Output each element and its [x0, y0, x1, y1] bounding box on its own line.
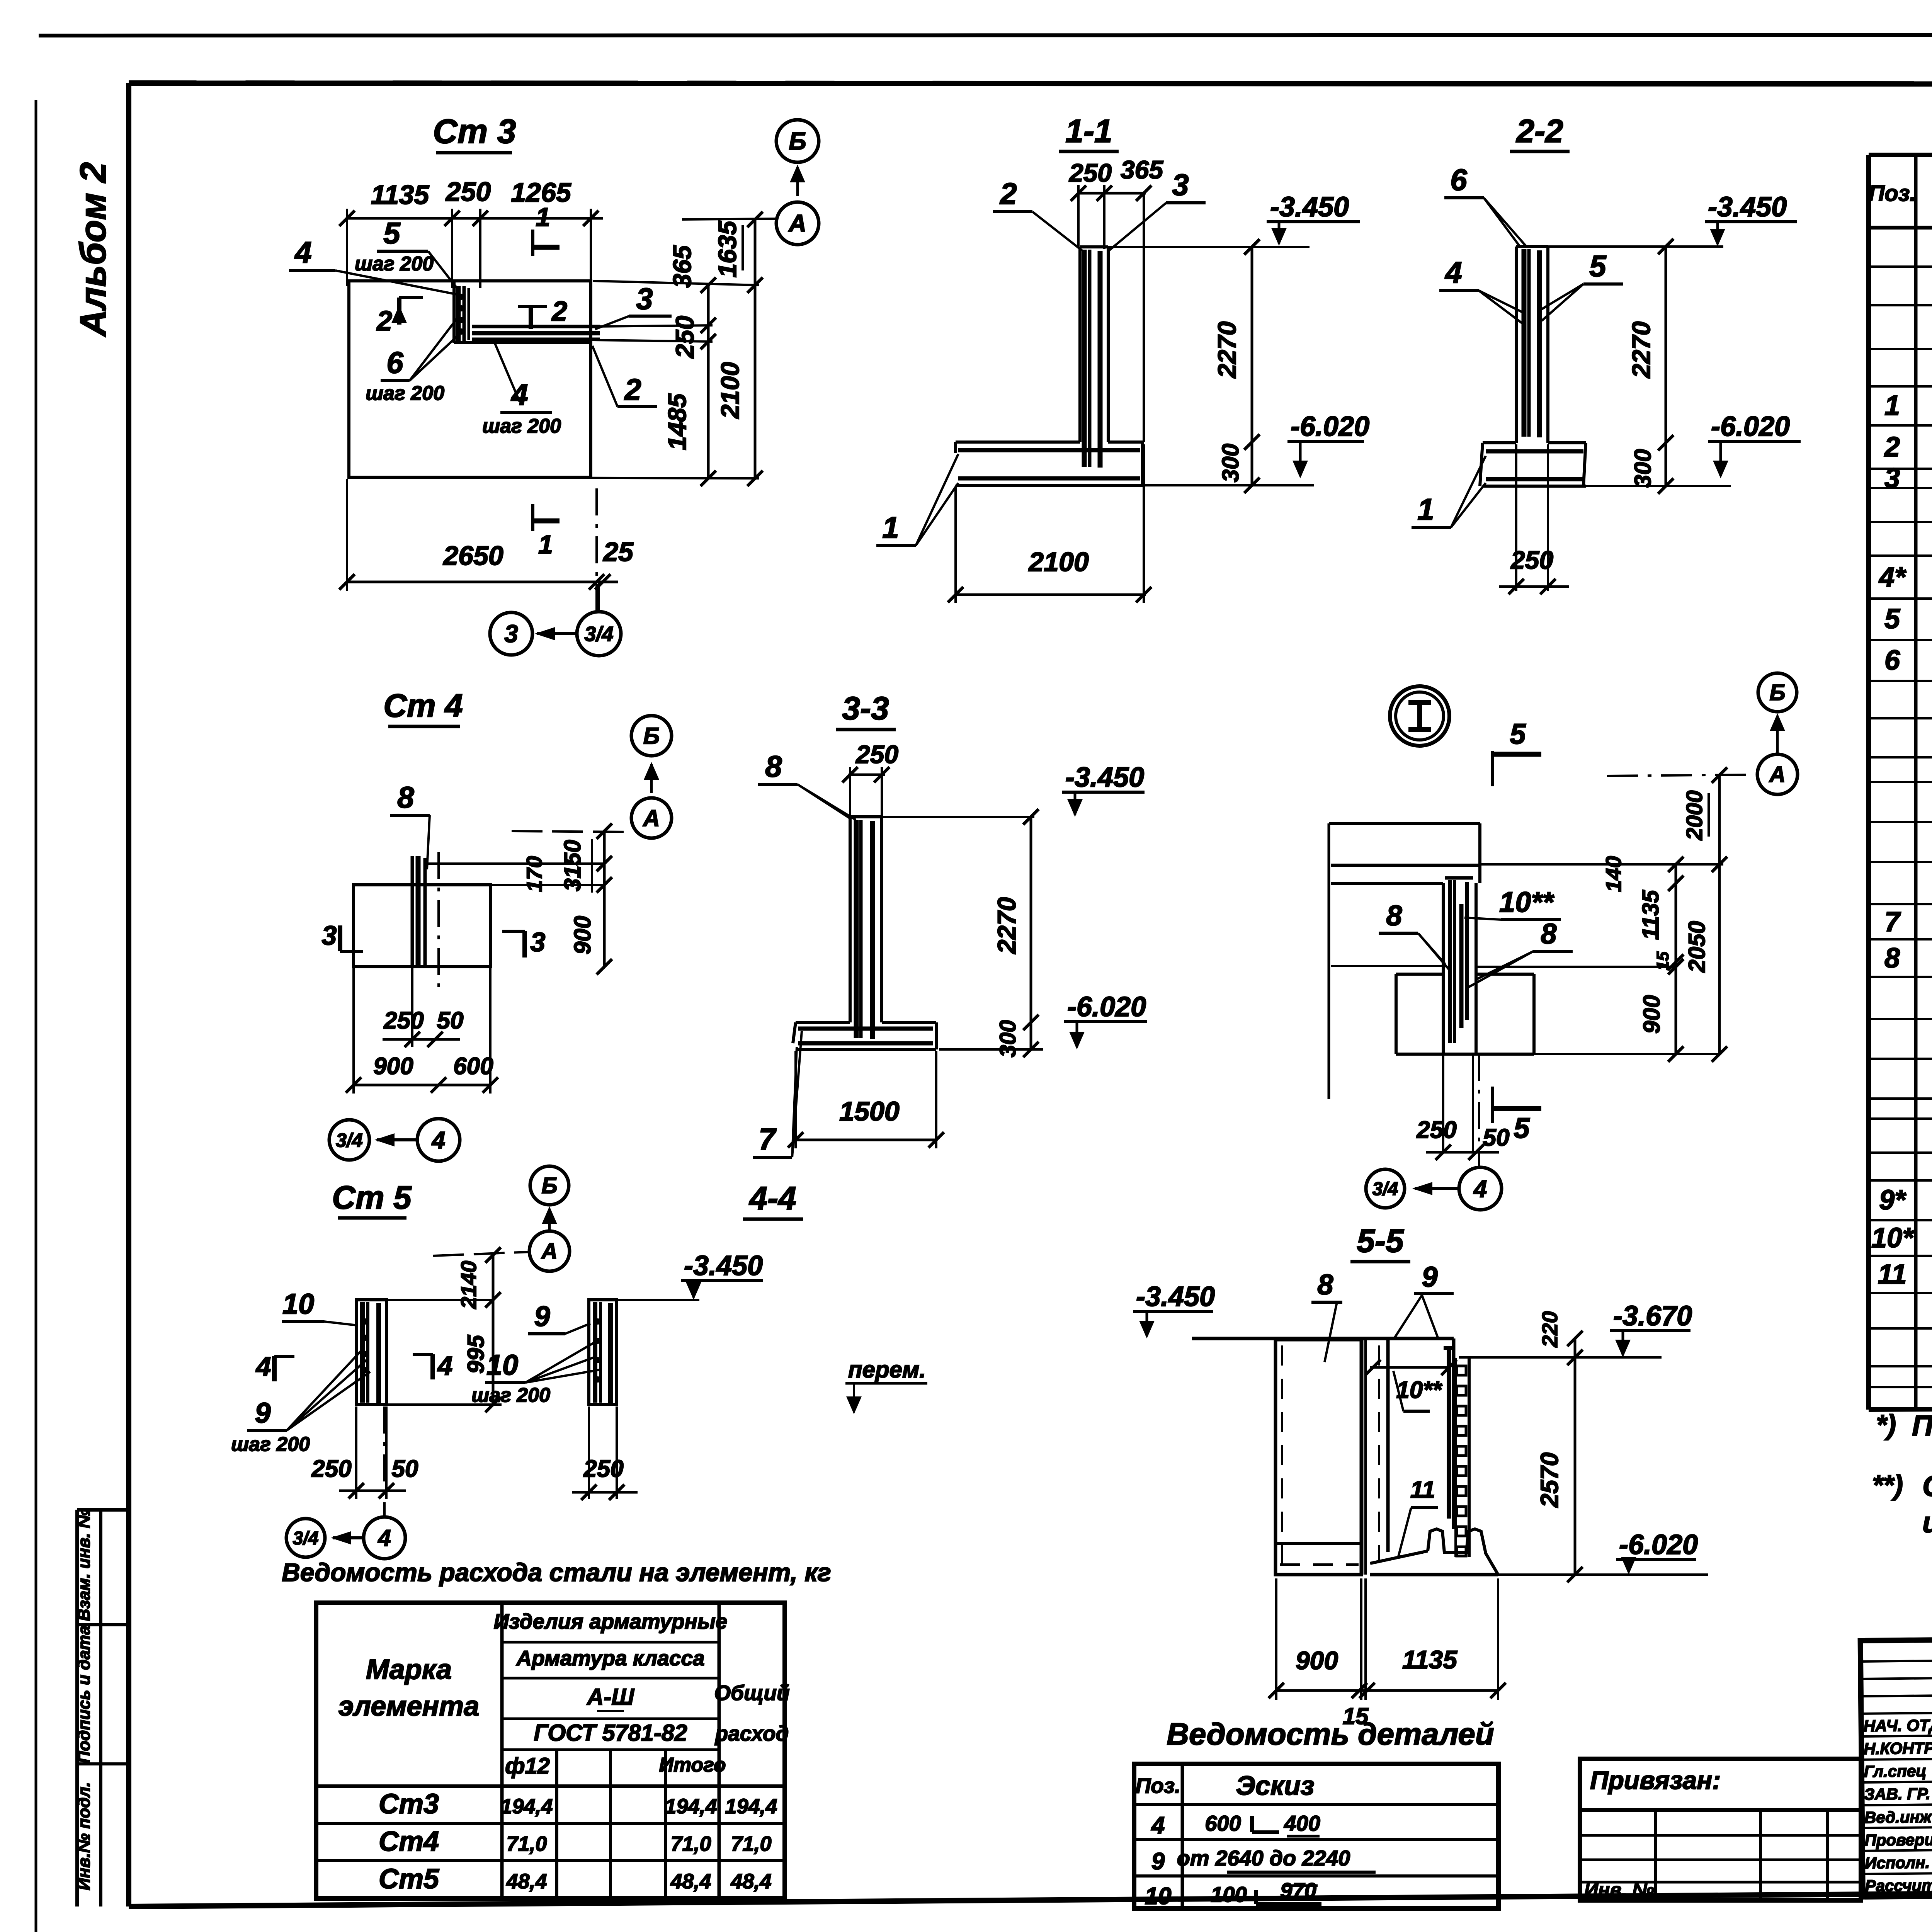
svg-text:3-3: 3-3 — [842, 690, 889, 726]
svg-text:Б: Б — [541, 1173, 557, 1198]
svg-text:Стержень поз. 10 приварить: Стержень поз. 10 приварить к закладному — [1922, 1470, 1932, 1503]
st5 centre line down — [383, 1406, 386, 1517]
svg-text:71,0: 71,0 — [670, 1832, 711, 1855]
5-5 hidden dashed edge — [1378, 1345, 1380, 1561]
svg-text:48,4: 48,4 — [670, 1870, 711, 1893]
svg-text:Позиции 4, 9, 10 см. ведомость: Позиции 4, 9, 10 см. ведомость деталей. — [1912, 1410, 1932, 1442]
svg-text:7: 7 — [759, 1122, 777, 1156]
svg-text:6: 6 — [1450, 163, 1467, 197]
4-4 mesh lines — [593, 1302, 597, 1403]
2-2 footing rebars — [1486, 449, 1583, 454]
svg-text:-3.670: -3.670 — [1613, 1301, 1692, 1332]
st3 marker circle B — [776, 120, 819, 162]
svg-text:970: 970 — [1280, 1878, 1316, 1903]
svg-text:250: 250 — [1510, 546, 1553, 574]
svg-text:71,0: 71,0 — [731, 1832, 771, 1855]
4-4 wall plan — [589, 1300, 617, 1405]
5-5 wall left face — [1386, 1338, 1390, 1552]
svg-text:250: 250 — [311, 1456, 351, 1482]
svg-text:995: 995 — [463, 1334, 489, 1374]
st5 dim 2140/995 — [492, 1255, 495, 1405]
svg-text:Ст 4: Ст 4 — [383, 687, 463, 724]
svg-text:4: 4 — [1444, 255, 1462, 289]
svg-text:Эскиз: Эскиз — [1236, 1770, 1314, 1801]
svg-text:400: 400 — [1284, 1811, 1320, 1835]
1-1 top dims — [1078, 192, 1146, 195]
1-1 footing rebars — [958, 448, 1140, 452]
svg-text:Б: Б — [643, 723, 660, 749]
svg-text:3/4: 3/4 — [1372, 1179, 1398, 1199]
svg-text:194,4: 194,4 — [500, 1795, 553, 1818]
5-5 bottom dims — [1275, 1578, 1277, 1700]
svg-text:Привязан:: Привязан: — [1590, 1766, 1721, 1794]
svg-text:ЗАВ. ГР.: ЗАВ. ГР. — [1864, 1784, 1930, 1803]
svg-text:900: 900 — [570, 916, 595, 954]
5-5 footing shoe — [1428, 1529, 1498, 1575]
svg-text:48,4: 48,4 — [506, 1870, 547, 1893]
5-5 welded mesh strip — [1454, 1358, 1457, 1557]
2-2 bottom dim 250 — [1515, 444, 1517, 591]
svg-text:3: 3 — [531, 927, 546, 957]
svg-text:Взам. инв. №: Взам. инв. № — [75, 1509, 94, 1621]
svg-text:8: 8 — [397, 780, 414, 814]
svg-text:250: 250 — [583, 1456, 623, 1482]
svg-text:2: 2 — [624, 372, 641, 406]
svg-text:4-4: 4-4 — [748, 1180, 796, 1216]
detail I slab — [1329, 822, 1480, 825]
st3 section mark 1 top — [531, 230, 534, 256]
5-5 bar 10 vertical — [1447, 1346, 1451, 1519]
st3 section mark 1 bottom — [531, 504, 534, 531]
svg-text:365: 365 — [668, 245, 696, 288]
svg-text:3/4: 3/4 — [584, 622, 613, 646]
st5 level line A — [433, 1252, 529, 1256]
st4 level line A — [512, 831, 631, 832]
svg-text:2650: 2650 — [442, 541, 503, 571]
st5 section mark 4 left — [272, 1356, 277, 1381]
svg-text:365: 365 — [1121, 155, 1163, 184]
st3 marker circle 3/4 — [577, 612, 621, 656]
svg-text:-3.450: -3.450 — [1065, 762, 1144, 793]
svg-text:Ведомость расхода стали на: Ведомость расхода стали на элемент, кг — [282, 1558, 831, 1587]
st4 dims below — [383, 1038, 460, 1041]
svg-text:2270: 2270 — [1627, 321, 1655, 379]
svg-text:-6.020: -6.020 — [1291, 411, 1369, 442]
sheet left thin border — [35, 100, 37, 1932]
svg-text:Н.КОНТР.: Н.КОНТР. — [1864, 1739, 1932, 1758]
detail I bottom dim 250 50 — [1426, 1151, 1499, 1154]
st5 mesh lines — [360, 1302, 365, 1403]
5-5 wedge line — [1370, 1551, 1428, 1563]
svg-text:10*: 10* — [1871, 1223, 1914, 1253]
st4 section mark 3 right — [522, 931, 527, 957]
st3 level line to marker A — [682, 219, 776, 219]
svg-text:50: 50 — [392, 1456, 418, 1482]
svg-text:шаг 200: шаг 200 — [231, 1433, 310, 1456]
svg-text:3: 3 — [1172, 168, 1189, 202]
svg-text:А: А — [642, 805, 660, 831]
detail I marker circle 4 — [1459, 1167, 1502, 1210]
svg-text:2050: 2050 — [1684, 921, 1710, 973]
svg-text:элемента: элемента — [338, 1691, 479, 1722]
svg-text:9: 9 — [1151, 1848, 1165, 1875]
svg-text:220: 220 — [1537, 1311, 1562, 1347]
svg-text:-6.020: -6.020 — [1067, 992, 1146, 1022]
svg-text:4: 4 — [378, 1525, 391, 1551]
svg-text:3/4: 3/4 — [336, 1129, 363, 1151]
st4 marker circle B — [631, 716, 672, 756]
svg-text:Изделия арматурные: Изделия арматурные — [494, 1609, 728, 1633]
3-3 dim 2270 — [1030, 817, 1032, 1049]
svg-text:250: 250 — [1416, 1117, 1456, 1143]
svg-text:Ведомость деталей: Ведомость деталей — [1167, 1717, 1494, 1751]
svg-text:8: 8 — [1541, 918, 1557, 950]
5-5 wall right face — [1452, 1338, 1456, 1529]
svg-text:3: 3 — [322, 920, 337, 951]
st3 section mark 2 mid — [529, 305, 533, 329]
st5 marker arrow — [548, 1209, 551, 1231]
svg-text:71,0: 71,0 — [506, 1832, 547, 1855]
svg-text:Ст 5: Ст 5 — [332, 1179, 412, 1216]
svg-text:-3.450: -3.450 — [684, 1250, 763, 1281]
svg-text:3: 3 — [504, 620, 518, 648]
detail I section mark 5 bottom — [1491, 1087, 1494, 1123]
st3 marker arrow left — [537, 632, 577, 635]
st3 wall band — [452, 281, 456, 343]
st5 bottom dim — [355, 1406, 357, 1499]
svg-text:15: 15 — [1343, 1703, 1369, 1729]
svg-text:шаг 200: шаг 200 — [482, 415, 561, 437]
svg-text:-6.020: -6.020 — [1711, 411, 1790, 442]
svg-text:194,4: 194,4 — [665, 1795, 717, 1818]
svg-text:8: 8 — [1884, 943, 1900, 974]
svg-text:Вед.инж: Вед.инж — [1864, 1808, 1932, 1827]
svg-text:1635: 1635 — [713, 220, 742, 277]
svg-text:4: 4 — [1151, 1812, 1165, 1839]
svg-text:100: 100 — [1211, 1882, 1247, 1906]
svg-text:600: 600 — [453, 1053, 493, 1080]
svg-text:2: 2 — [551, 296, 567, 327]
detail I mid extension — [1331, 965, 1443, 967]
st3 bottom dim line — [347, 581, 618, 583]
5-5 left facing plate — [1276, 1340, 1361, 1575]
svg-text:4: 4 — [510, 378, 528, 412]
detail I wall — [1442, 883, 1445, 1054]
svg-text:8: 8 — [765, 749, 782, 783]
svg-text:Поз.: Поз. — [1136, 1774, 1181, 1798]
svg-text:6: 6 — [1884, 645, 1900, 676]
5-5 level -3.670 line — [1459, 1356, 1662, 1359]
5-5 inner dim line — [1370, 1366, 1451, 1369]
svg-text:ГОСТ 5781-82: ГОСТ 5781-82 — [534, 1720, 687, 1746]
svg-text:Альбом 2: Альбом 2 — [73, 162, 114, 337]
st3 marker arrow — [796, 167, 799, 196]
svg-text:300: 300 — [1218, 444, 1243, 482]
svg-text:1485: 1485 — [663, 393, 691, 450]
2-2 dim 2270 — [1665, 247, 1667, 486]
svg-text:шаг 200: шаг 200 — [366, 382, 444, 405]
main frame — [129, 83, 1932, 84]
svg-text:5: 5 — [1510, 718, 1526, 750]
svg-text:5: 5 — [1589, 249, 1607, 283]
svg-text:900: 900 — [373, 1053, 413, 1080]
svg-text:900: 900 — [1639, 995, 1665, 1034]
spec table row lines — [1869, 265, 1932, 268]
svg-text:-3.450: -3.450 — [1136, 1281, 1215, 1312]
1-1 level top line — [1108, 246, 1310, 248]
st3 mesh bars horizontal — [472, 325, 600, 328]
svg-text:3: 3 — [1884, 463, 1900, 494]
svg-text:50: 50 — [1483, 1124, 1510, 1151]
svg-text:**): **) — [1872, 1470, 1903, 1501]
svg-text:2-2: 2-2 — [1515, 113, 1563, 149]
svg-text:3/4: 3/4 — [293, 1528, 319, 1549]
2-2 wall — [1515, 247, 1518, 443]
svg-text:шаг 200: шаг 200 — [471, 1384, 550, 1406]
privyazan table — [1580, 1759, 1861, 1900]
svg-text:А-Ш: А-Ш — [586, 1684, 634, 1710]
svg-text:1135: 1135 — [371, 180, 430, 210]
svg-text:11: 11 — [1878, 1259, 1907, 1290]
svg-text:5-5: 5-5 — [1357, 1223, 1404, 1259]
svg-text:15: 15 — [1653, 951, 1672, 970]
svg-text:1-1: 1-1 — [1065, 113, 1112, 149]
svg-text:Ст 3: Ст 3 — [433, 112, 516, 150]
svg-text:250: 250 — [383, 1007, 423, 1034]
detail I marker circle B — [1758, 673, 1797, 712]
svg-text:ф12: ф12 — [505, 1753, 550, 1779]
st3 right extension lines — [593, 281, 759, 285]
svg-text:Поз.: Поз. — [1869, 181, 1916, 206]
svg-text:Арматура класса: Арматура класса — [515, 1646, 704, 1670]
detail I outer dim — [1718, 775, 1721, 1054]
svg-text:1: 1 — [1417, 492, 1434, 526]
st4 dim vertical right — [603, 831, 606, 967]
svg-text:10: 10 — [1145, 1883, 1172, 1910]
svg-text:5: 5 — [1514, 1112, 1530, 1144]
svg-text:А: А — [541, 1239, 558, 1264]
svg-text:3: 3 — [636, 282, 653, 316]
st4 plan rectangle — [354, 885, 490, 967]
svg-text:Исполн.: Исполн. — [1865, 1853, 1930, 1872]
svg-text:2570: 2570 — [1536, 1452, 1563, 1508]
svg-text:Итого: Итого — [659, 1754, 726, 1776]
detail I axis line — [1607, 775, 1757, 776]
st3 marker circle A — [776, 202, 819, 245]
svg-text:*): *) — [1876, 1410, 1896, 1440]
steel table grid — [316, 1603, 785, 1898]
detail I marker arrow left — [1415, 1187, 1459, 1190]
svg-text:Ст5: Ст5 — [379, 1864, 439, 1895]
svg-text:2100: 2100 — [716, 362, 744, 419]
svg-text:10: 10 — [282, 1288, 314, 1320]
svg-text:1: 1 — [536, 202, 550, 232]
detail I top extension line — [1480, 863, 1723, 866]
st4 marker circle 4 — [417, 1119, 460, 1161]
svg-text:10: 10 — [486, 1349, 518, 1381]
st4 marker arrow left — [377, 1138, 417, 1141]
svg-text:4: 4 — [437, 1350, 453, 1381]
detail I marker circle A — [1757, 754, 1798, 794]
svg-text:1135: 1135 — [1402, 1645, 1458, 1674]
detail I marker arrow — [1776, 716, 1779, 753]
st5 marker circle 4 — [364, 1517, 405, 1559]
svg-text:250: 250 — [670, 316, 699, 359]
svg-text:5: 5 — [383, 216, 401, 250]
svg-text:250: 250 — [1068, 158, 1112, 187]
3-3 wall rebars — [854, 820, 859, 1038]
svg-text:9: 9 — [1422, 1261, 1437, 1293]
svg-text:расход: расход — [714, 1721, 789, 1745]
st3 centre line down — [595, 488, 598, 615]
svg-text:Подпись и дата: Подпись и дата — [75, 1626, 94, 1764]
detail I marker — [1390, 686, 1449, 746]
svg-text:25: 25 — [602, 537, 634, 567]
st5 marker circle 3/4 — [286, 1519, 325, 1557]
st4 marker circle 3/4 — [329, 1120, 369, 1160]
svg-text:600: 600 — [1205, 1811, 1241, 1835]
svg-text:194,4: 194,4 — [725, 1795, 777, 1818]
st4 marker arrow — [650, 764, 653, 793]
svg-text:250: 250 — [855, 740, 898, 769]
svg-text:Инв.№ подл.: Инв.№ подл. — [75, 1782, 94, 1890]
svg-text:6: 6 — [386, 345, 403, 379]
svg-text:шаг 200: шаг 200 — [355, 253, 434, 275]
svg-text:-3.450: -3.450 — [1270, 192, 1349, 223]
svg-text:2270: 2270 — [1213, 321, 1241, 379]
svg-text:2000: 2000 — [1682, 790, 1707, 840]
svg-text:11: 11 — [1410, 1476, 1435, 1503]
detail I inner dim — [1675, 864, 1677, 1054]
svg-text:Б: Б — [1769, 680, 1785, 705]
svg-text:4: 4 — [255, 1351, 271, 1381]
sidebar box — [75, 1510, 79, 1906]
svg-text:7: 7 — [1884, 906, 1901, 937]
svg-text:2140: 2140 — [456, 1261, 481, 1310]
svg-text:5: 5 — [1884, 604, 1900, 634]
detail I bar 10 — [1459, 904, 1464, 1028]
1-1 footing — [956, 440, 1080, 444]
svg-text:Ст3: Ст3 — [379, 1789, 439, 1820]
svg-text:300: 300 — [1630, 449, 1656, 488]
5-5 dim 220 2570 — [1574, 1338, 1577, 1575]
detail I marker circle 3/4 — [1366, 1169, 1405, 1208]
svg-text:НАЧ. ОТД: НАЧ. ОТД — [1863, 1716, 1932, 1735]
svg-text:170: 170 — [522, 856, 546, 892]
5-5 top line — [1192, 1337, 1454, 1340]
1-1 extension 365 — [1143, 193, 1145, 442]
svg-text:2100: 2100 — [1028, 547, 1089, 577]
2-2 footing — [1483, 441, 1516, 444]
svg-text:1135: 1135 — [1638, 889, 1663, 940]
svg-text:1: 1 — [538, 530, 553, 559]
svg-text:-6.020: -6.020 — [1619, 1529, 1698, 1560]
1-1 dim 2270 — [1251, 247, 1253, 485]
svg-text:1: 1 — [1884, 390, 1900, 421]
svg-text:50: 50 — [437, 1007, 464, 1034]
svg-text:8: 8 — [1317, 1269, 1333, 1301]
st4 centre line — [437, 852, 440, 989]
detail I below wall lines — [1442, 1054, 1444, 1152]
svg-text:перем.: перем. — [848, 1357, 926, 1383]
4-4 bottom dim 250 — [588, 1406, 590, 1499]
svg-text:2: 2 — [999, 177, 1017, 211]
svg-text:Общий: Общий — [714, 1681, 789, 1705]
svg-text:Проверил: Проверил — [1864, 1830, 1932, 1849]
4-4 top extension — [617, 1299, 699, 1301]
sheet top edge line — [39, 35, 1932, 36]
svg-text:Рассчит: Рассчит — [1865, 1876, 1932, 1895]
3-3 footing rebars — [798, 1027, 933, 1031]
svg-text:8: 8 — [1386, 900, 1402, 932]
svg-text:4*: 4* — [1878, 562, 1906, 593]
svg-text:Б: Б — [789, 127, 806, 155]
st5 marker circle A — [529, 1231, 570, 1271]
st4 mesh cluster — [411, 856, 414, 966]
svg-text:А: А — [1769, 762, 1786, 787]
svg-text:1500: 1500 — [839, 1096, 900, 1126]
svg-text:изделию лицевой плиты подпо: изделию лицевой плиты подпорной стены. — [1922, 1506, 1932, 1539]
svg-text:2: 2 — [1884, 432, 1900, 463]
3-3 bottom dim 1500 — [796, 1139, 936, 1141]
svg-text:140: 140 — [1601, 856, 1626, 892]
st3 outer dim line — [754, 218, 757, 478]
spec table grid — [1869, 153, 1932, 157]
detail I block — [1396, 973, 1443, 976]
st4 section mark 3 left — [338, 925, 342, 951]
svg-text:250: 250 — [445, 177, 491, 207]
st3 base slab rectangle — [349, 281, 591, 477]
svg-text:300: 300 — [995, 1020, 1020, 1058]
svg-text:А: А — [788, 209, 806, 237]
svg-text:Марка: Марка — [366, 1654, 452, 1685]
st4 top extension — [427, 862, 604, 865]
st5 marker arrow left — [333, 1536, 363, 1539]
st3 top dimension line — [347, 217, 603, 220]
svg-text:10**: 10** — [1396, 1377, 1442, 1403]
st5 top extension — [386, 1299, 493, 1301]
svg-text:-3.450: -3.450 — [1708, 192, 1787, 223]
st3 marker circle 3 — [490, 612, 532, 655]
svg-text:9: 9 — [255, 1397, 270, 1429]
svg-text:3150: 3150 — [560, 840, 585, 891]
detail I wall mesh — [1445, 876, 1473, 880]
st3 mesh cross-section cluster — [456, 286, 461, 341]
st5 marker circle B — [530, 1166, 569, 1205]
svg-text:9*: 9* — [1879, 1185, 1906, 1216]
svg-text:9: 9 — [534, 1300, 550, 1332]
st3 inner dim line — [707, 285, 710, 478]
svg-text:1: 1 — [882, 510, 899, 544]
st5 wall plan — [356, 1300, 386, 1405]
1-1 bottom dim 2100 — [956, 594, 1146, 596]
details table grid — [1134, 1764, 1498, 1908]
svg-text:2270: 2270 — [992, 897, 1021, 954]
st5 section mark 4 right — [430, 1354, 435, 1379]
svg-text:10**: 10** — [1499, 886, 1554, 918]
svg-text:4: 4 — [1473, 1176, 1487, 1202]
svg-text:от 2640 до 2240: от 2640 до 2240 — [1177, 1846, 1350, 1870]
3-3 wall — [849, 817, 852, 1022]
svg-text:900: 900 — [1296, 1646, 1338, 1675]
svg-text:Инв. №: Инв. № — [1584, 1879, 1654, 1901]
3-3 footing — [796, 1021, 850, 1024]
title block — [1861, 1633, 1932, 1898]
3-3 level top line — [882, 816, 1034, 818]
svg-text:48,4: 48,4 — [730, 1870, 771, 1893]
2-2 level top line — [1548, 245, 1723, 248]
1-1 wall rebars — [1082, 250, 1087, 467]
